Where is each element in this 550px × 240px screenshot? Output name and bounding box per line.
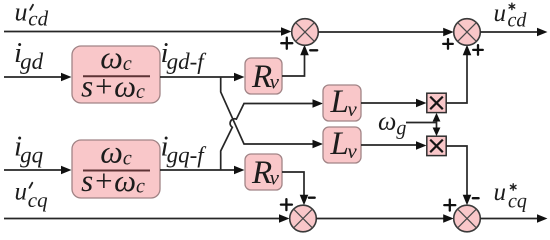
inductor block Lv upper: [323, 84, 361, 121]
wire igq-f to Rv bottom: [160, 169, 236, 171]
sign + at S1 left: [281, 38, 292, 49]
summer S2 (output u*cd): [454, 19, 481, 46]
multiplier M1 (omega_g x Lv igq-f): [427, 93, 446, 112]
multiplier M2 (omega_g x Lv igd-f): [427, 136, 446, 155]
wire Rv top output up to summer S1: [282, 52, 305, 76]
sign - at S1 bottom: [310, 49, 317, 51]
summer S3 (u'cq - Rv igq-f): [290, 205, 317, 232]
wire igd input: [4, 76, 63, 78]
sign + at S3 left: [281, 199, 292, 210]
wire cross igq-f up to Lv upper (with hop): [221, 104, 315, 171]
summer S1 (u'cd - Rv igd-f): [292, 19, 319, 46]
wire igd-f to Rv top: [160, 76, 236, 78]
svg-text:s+ωc: s+ωc: [81, 163, 145, 198]
wire output u*cd: [480, 31, 539, 33]
wire Lv lower to multiplier M2: [361, 144, 418, 146]
wire u'cq input: [4, 218, 281, 220]
wire M2 output down to summer S4: [446, 146, 467, 198]
wire S1 to S2: [318, 31, 446, 33]
resistor block Rv bottom: [245, 154, 282, 191]
sign + at S4 left: [444, 200, 455, 211]
filter block omega_c/(s+omega_c) q-axis: [72, 134, 160, 199]
wire Lv upper to multiplier M1: [361, 102, 418, 104]
wire S3 to S4: [316, 218, 446, 220]
wire Rv bottom output down to summer S3: [282, 172, 304, 198]
sign - at S4 top: [473, 197, 479, 199]
wire cross igd-f down to Lv lower: [221, 77, 315, 144]
wire output u*cq: [480, 218, 539, 220]
sign + at S2 left: [443, 39, 453, 49]
resistor block Rv top: [245, 58, 282, 95]
summer S4 (output u*cq): [454, 205, 481, 232]
svg-text:s+ωc: s+ωc: [81, 69, 145, 104]
inductor block Lv lower: [323, 126, 361, 163]
sign + at S2 bottom: [473, 45, 483, 55]
wire M1 output up to summer S2: [446, 52, 467, 103]
sign - at S3 top: [309, 197, 315, 199]
wire u'cd input: [4, 31, 283, 33]
wire igq input: [4, 169, 63, 171]
wire omega_g to multipliers: [406, 122, 437, 124]
filter block omega_c/(s+omega_c) d-axis: [72, 39, 160, 104]
